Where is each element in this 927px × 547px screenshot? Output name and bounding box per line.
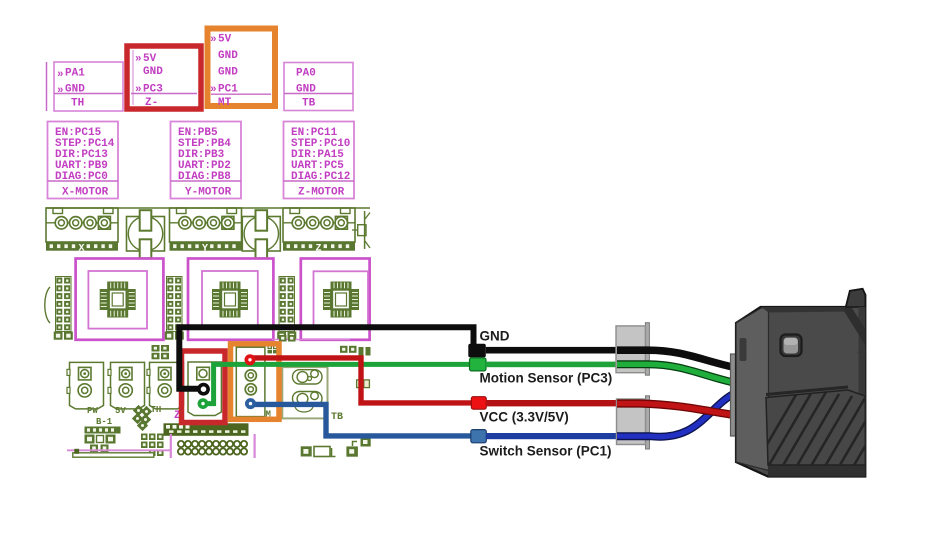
pin header J2 xyxy=(165,277,184,340)
component cluster B-1 pads xyxy=(85,427,121,453)
capacitor C2 footprint xyxy=(242,210,280,258)
terminal M footprint (inside orange box) xyxy=(236,347,265,416)
svg-text:Motion Sensor (PC3): Motion Sensor (PC3) xyxy=(480,370,613,385)
grip hatched area xyxy=(766,390,865,465)
component cluster right of B-1 xyxy=(141,434,164,457)
pin header J1 xyxy=(54,277,73,340)
left-face slot xyxy=(740,338,747,361)
pin dot PC3 (green) xyxy=(198,398,209,409)
terminal 5V footprint xyxy=(108,362,145,416)
svg-text:MT: MT xyxy=(218,97,232,109)
svg-text:TB: TB xyxy=(302,98,316,110)
plug wire-entry nose xyxy=(731,354,741,436)
driver chip U3 (Z) xyxy=(323,282,359,318)
wire PC3 straight run xyxy=(486,362,618,368)
SWD pin strip xyxy=(164,423,249,436)
svg-text:Switch Sensor (PC1): Switch Sensor (PC1) xyxy=(480,443,612,458)
pin dot VCC (red) xyxy=(245,354,256,365)
svg-text:»: » xyxy=(57,85,64,97)
silkscreen line above TB xyxy=(272,339,350,341)
wire PC1 over block curving to plug xyxy=(617,393,737,437)
svg-text:Z-: Z- xyxy=(145,97,158,109)
svg-text:»: » xyxy=(135,54,142,66)
svg-text:Z: Z xyxy=(316,244,322,255)
terminal PW footprint xyxy=(67,362,104,416)
wire PC3 over block curving to plug xyxy=(617,364,736,383)
highlight box MT (orange) xyxy=(208,29,276,110)
board edge silkscreen line xyxy=(46,207,370,209)
wire end marker PC1 (blue) xyxy=(471,430,487,443)
svg-text:PW: PW xyxy=(87,406,98,416)
terminal TH footprint xyxy=(147,362,184,415)
svg-text:5V: 5V xyxy=(115,406,126,416)
svg-text:GND: GND xyxy=(218,67,238,79)
svg-text:DIAG:PC12: DIAG:PC12 xyxy=(291,171,350,183)
2x2 pads right of magenta line xyxy=(340,346,371,356)
small component with trace xyxy=(346,442,358,457)
wire VCC straight run xyxy=(486,400,618,406)
node tick left of PA1 header box xyxy=(46,62,48,111)
board bottom silkscreen line xyxy=(67,449,170,451)
highlight box Z-probe (red) xyxy=(127,46,201,109)
pinout box Z-MOTOR xyxy=(284,122,355,199)
svg-text:GND: GND xyxy=(296,84,316,96)
svg-text:»: » xyxy=(210,84,217,96)
pinout box X-MOTOR xyxy=(48,122,119,199)
wire Switch Sensor PC1 (board side) xyxy=(251,404,474,436)
svg-text:PA1: PA1 xyxy=(65,68,85,80)
release button xyxy=(781,335,802,357)
wire VCC over block curving to plug xyxy=(617,404,737,416)
svg-text:GND: GND xyxy=(143,66,163,78)
svg-text:»: » xyxy=(210,34,217,46)
svg-text:DIAG:PB8: DIAG:PB8 xyxy=(178,171,231,183)
svg-text:GND: GND xyxy=(480,329,510,344)
EXP header circle grid xyxy=(171,434,255,458)
connector X-MOTOR footprint xyxy=(46,208,118,255)
svg-text:X-MOTOR: X-MOTOR xyxy=(62,187,109,199)
svg-text:5V: 5V xyxy=(143,53,157,65)
driver chip U1 (X) xyxy=(100,282,136,318)
svg-text:Y-MOTOR: Y-MOTOR xyxy=(185,187,232,199)
svg-text:PC3: PC3 xyxy=(143,84,163,96)
connector Y-MOTOR footprint xyxy=(170,208,242,255)
wire end marker PC3 (green) xyxy=(470,358,487,371)
svg-text:PA0: PA0 xyxy=(296,68,316,80)
wire Motion Sensor PC3 (board side) xyxy=(203,364,470,403)
2-pad component on red wire xyxy=(357,380,370,388)
wire end marker VCC (red) xyxy=(471,397,486,410)
pin dot PC1 (blue) xyxy=(245,398,256,409)
heat-shrink block 1 xyxy=(616,323,649,376)
sensor plug body xyxy=(736,289,891,484)
wire GND over block curving to plug xyxy=(617,350,735,367)
wire PC1 straight run xyxy=(486,433,618,439)
wire GND (board side) xyxy=(179,327,473,389)
wire GND straight run xyxy=(486,347,618,354)
pin header J3 xyxy=(277,277,296,340)
svg-text:TB: TB xyxy=(331,412,343,423)
wire VCC (board side) xyxy=(250,358,473,403)
svg-text:B-1: B-1 xyxy=(96,417,113,427)
svg-text:TH: TH xyxy=(71,98,84,110)
seam line xyxy=(766,387,848,395)
pinout box Y-MOTOR xyxy=(171,122,242,199)
svg-text:5V: 5V xyxy=(218,34,232,46)
driver chip U2 (Y) xyxy=(212,282,248,318)
pin ring GND on Z-probe connector xyxy=(199,385,208,394)
svg-text:TH: TH xyxy=(151,405,162,415)
wire end marker GND (black) xyxy=(468,344,486,358)
component B/L footprint bottom right xyxy=(301,446,336,456)
svg-text:Y: Y xyxy=(202,244,208,255)
diode diamond cluster xyxy=(132,405,152,431)
heat-shrink block 2 xyxy=(617,396,650,449)
accent stripes top right xyxy=(842,308,865,345)
connector Z-MOTOR footprint xyxy=(283,208,355,255)
svg-text:»: » xyxy=(135,84,142,96)
component on blue wire xyxy=(361,438,371,447)
svg-text:X: X xyxy=(79,244,85,255)
highlight box MT bottom (orange) xyxy=(231,344,280,420)
svg-text:VCC (3.3V/5V): VCC (3.3V/5V) xyxy=(480,409,569,424)
bottom edge bar footprint xyxy=(73,453,154,457)
svg-text:GND: GND xyxy=(65,84,85,96)
connector label box PA1/GND/TH xyxy=(54,62,123,111)
small pad at bar left xyxy=(74,449,79,454)
connector label box PA0/GND/TB xyxy=(284,63,353,111)
partial footprint at board crop edge xyxy=(352,211,370,249)
terminal TB footprint xyxy=(282,367,327,418)
arc silkscreen left of header J1 xyxy=(45,287,50,323)
svg-text:»: » xyxy=(57,69,64,81)
capacitor C1 footprint xyxy=(127,210,165,258)
4-pad component above TH xyxy=(152,345,170,359)
svg-text:DIAG:PC0: DIAG:PC0 xyxy=(55,171,108,183)
driver Z socket outline xyxy=(301,259,370,340)
terminal Z-probe footprint (inside red box) xyxy=(188,362,221,416)
svg-text:PC1: PC1 xyxy=(218,84,238,96)
highlight box Z-probe bottom (red) xyxy=(182,351,226,423)
4-pad component inside orange box xyxy=(268,345,278,353)
driver X socket outline xyxy=(76,259,164,340)
svg-text:Z-MOTOR: Z-MOTOR xyxy=(298,187,345,199)
svg-text:GND: GND xyxy=(218,50,238,62)
driver Y socket outline xyxy=(188,259,273,340)
2-pad component on line above TB xyxy=(279,335,296,342)
